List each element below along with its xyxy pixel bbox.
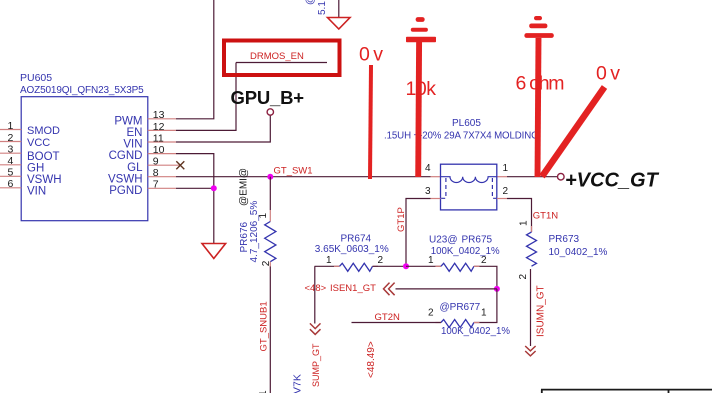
wire junction to PR675 [406, 265, 441, 267]
svg-text:2: 2 [378, 255, 384, 266]
red probe 6ohm bar2 [524, 33, 553, 38]
svg-text:VSWH: VSWH [108, 173, 143, 185]
svg-text:PR675: PR675 [462, 235, 493, 246]
IC U PU605 body [21, 97, 148, 221]
svg-text:PL605: PL605 [452, 118, 481, 129]
svg-text:10_0402_1%: 10_0402_1% [549, 247, 608, 258]
svg-text:9: 9 [153, 156, 159, 168]
DRMOS_EN red callout box [224, 41, 340, 76]
pin 7 PGND stub [148, 187, 176, 189]
wire GT1P junction row [315, 265, 340, 267]
resistor PR676 zigzag [265, 222, 276, 262]
wire SUMP_GT vertical [314, 266, 316, 323]
wire GT_SNUB1 [269, 267, 271, 393]
svg-text:6: 6 [8, 178, 14, 190]
resistor PR673 zigzag [527, 232, 537, 266]
svg-text:1: 1 [326, 255, 332, 266]
svg-text:PGND: PGND [109, 185, 142, 197]
red probe 6ohm dot [534, 16, 542, 20]
svg-text:PR674: PR674 [341, 234, 372, 245]
svg-text:10: 10 [153, 144, 165, 156]
svg-text:0 v: 0 v [596, 63, 620, 85]
resistor PR674 pin2 stub [373, 265, 379, 267]
pin 6 VIN wire stub [0, 187, 21, 189]
svg-text:AOZ5019QI_QFN23_5X3P5: AOZ5019QI_QFN23_5X3P5 [20, 85, 144, 96]
svg-text:VIN: VIN [123, 139, 142, 151]
svg-text:4: 4 [425, 163, 431, 174]
junction GT1P/PR674/PR675 [403, 263, 409, 269]
red probe 6ohm stem [538, 38, 539, 177]
svg-text:10k: 10k [406, 78, 437, 100]
svg-text:CGND: CGND [109, 150, 143, 162]
pin 10 CGND stub [148, 153, 176, 155]
inductor pin 2 wire [507, 199, 532, 233]
svg-text:+VCC_GT: +VCC_GT [565, 170, 660, 192]
red marker 0 v right diagonal stroke [542, 87, 605, 177]
svg-text:2: 2 [518, 274, 529, 280]
svg-text:GT1P: GT1P [396, 207, 407, 232]
svg-text:GT2N: GT2N [375, 312, 400, 323]
svg-text:5.1: 5.1 [317, 1, 328, 15]
wire to top ground [338, 0, 340, 18]
svg-text:11: 11 [153, 132, 164, 144]
no-connect X on pin 9 [176, 161, 184, 169]
ground symbol CGND [202, 244, 226, 259]
pin 11 VIN stub [148, 141, 176, 143]
inductor pin4 stub [431, 176, 441, 178]
svg-text:ISUMN_GT: ISUMN_GT [536, 285, 547, 337]
red marker 0 v left stroke [370, 65, 371, 179]
wire pin12 to DRMOS_EN [176, 63, 236, 131]
red probe 10k dot [416, 17, 425, 22]
svg-text:7: 7 [153, 179, 159, 191]
inductor pin 3 stub [431, 198, 441, 200]
svg-text:6 ohm: 6 ohm [516, 73, 564, 95]
red probe 10k stem [415, 42, 422, 177]
wire GT2N [352, 322, 441, 324]
wire ISEN junction down to PR677 [474, 289, 497, 323]
svg-text:PR673: PR673 [549, 234, 580, 245]
wire PR675 to corner down to ISEN junction [474, 266, 497, 289]
resistor PR675 pin2 stub [474, 265, 480, 267]
pin 5 VSWH wire stub [0, 175, 21, 177]
off-page connector ISUMN_GT chevron down [525, 346, 535, 356]
resistor PR674 zigzag [340, 263, 373, 271]
svg-text:SUMP_GT: SUMP_GT [311, 343, 321, 387]
off-page connector ISEN1_GT chevron [384, 283, 395, 296]
svg-text:V7K: V7K [292, 374, 304, 393]
pin 3 BOOT wire stub [0, 152, 21, 154]
pin 1 SMOD wire stub [0, 129, 21, 131]
junction GT_SW1 / PR676 [267, 174, 273, 180]
power port +VCC_GT circle [558, 173, 565, 180]
red probe 6ohm bar1 [529, 24, 547, 29]
svg-text:U23@: U23@ [429, 235, 458, 246]
svg-text:<48>: <48> [305, 283, 327, 294]
wire pin13 to PWM vertical [176, 0, 214, 119]
svg-text:3: 3 [425, 186, 431, 197]
svg-text:GT_SNUB1: GT_SNUB1 [259, 301, 270, 351]
svg-text:GPU_B+: GPU_B+ [231, 87, 305, 108]
resistor PR676 top wire [269, 177, 271, 210]
svg-text:GH: GH [27, 162, 44, 174]
svg-text:1: 1 [481, 308, 487, 319]
svg-text:@: @ [305, 0, 316, 5]
svg-text:2: 2 [503, 186, 509, 197]
svg-text:VIN: VIN [27, 185, 46, 197]
resistor PR676 pin2 stub [269, 262, 271, 267]
inductor pin 2 stub [497, 198, 507, 200]
wire pin11 to GPU_B+ port [176, 115, 270, 142]
wire ISEN1_GT horizontal [396, 288, 497, 290]
svg-text:1: 1 [519, 220, 530, 226]
svg-text:PWM: PWM [114, 115, 142, 127]
off-page connector SUMP_GT chevron down [310, 323, 321, 334]
junction pin7/CGND [211, 185, 217, 191]
svg-text:DRMOS_EN: DRMOS_EN [250, 51, 304, 62]
svg-text:BOOT: BOOT [27, 151, 60, 163]
inductor pin1 stub [497, 176, 507, 178]
svg-text:3.65K_0603_1%: 3.65K_0603_1% [315, 244, 389, 255]
svg-text:13: 13 [153, 109, 165, 121]
svg-text:4: 4 [8, 155, 14, 167]
svg-text:.15UH +-20% 29A 7X7X4 MOLDING: .15UH +-20% 29A 7X7X4 MOLDING [384, 131, 539, 142]
power port GPU_B+ circle [267, 109, 273, 115]
pin 8 VSWH stub [148, 176, 176, 178]
svg-text:0 v: 0 v [359, 44, 383, 66]
resistor PR677 zigzag [441, 320, 474, 328]
pin 4 GH wire stub [0, 164, 21, 166]
junction ISEN1_GT [494, 286, 500, 292]
svg-text:GT1N: GT1N [533, 211, 558, 222]
resistor PR675 pin1 stub [435, 265, 441, 267]
wire PR674 to junction [373, 265, 407, 267]
wire pin7 PGND to CGND vertical [176, 187, 214, 189]
resistor PR674 pin1 stub [334, 265, 340, 267]
wire GT_SW1 main horizontal [176, 176, 558, 178]
title block border lines [541, 390, 712, 393]
wire pin10 CGND to ground [176, 154, 214, 243]
resistor PR673 pin1 stub [531, 226, 533, 232]
svg-text:GL: GL [127, 162, 143, 174]
resistor PR675 zigzag [441, 263, 474, 271]
svg-text:3: 3 [8, 144, 14, 156]
wire DRMOS_EN net segment [236, 62, 327, 64]
svg-text:PU605: PU605 [20, 72, 52, 84]
svg-text:2: 2 [8, 132, 14, 144]
svg-text:VSWH: VSWH [27, 174, 62, 186]
svg-text:@PR677: @PR677 [440, 302, 481, 313]
svg-text:8: 8 [153, 167, 159, 179]
svg-text:EN: EN [127, 127, 143, 139]
svg-text:2: 2 [428, 308, 434, 319]
svg-text:4.7_1206_5%: 4.7_1206_5% [249, 201, 260, 263]
pin 2 VCC wire stub [0, 141, 21, 143]
svg-text:ISEN1_GT: ISEN1_GT [330, 283, 376, 294]
ground symbol top [328, 18, 351, 30]
inductor PL605 body [441, 164, 497, 210]
pin 9 GL stub [148, 164, 180, 166]
svg-text:100K_0402_1%: 100K_0402_1% [441, 326, 510, 337]
svg-text:GT_SW1: GT_SW1 [274, 166, 313, 177]
red probe 10k bar2 [406, 37, 436, 42]
svg-text:1: 1 [8, 120, 14, 132]
svg-text:VCC: VCC [27, 137, 50, 149]
svg-text:5: 5 [8, 167, 14, 179]
resistor PR677 pin stubs [435, 322, 479, 324]
svg-text:100K_0402_1%: 100K_0402_1% [431, 246, 500, 257]
inductor pin 3 wire [406, 199, 431, 267]
svg-text:1: 1 [503, 163, 509, 174]
resistor PR676 pin1 stub [269, 210, 271, 222]
svg-text:<48.49>: <48.49> [366, 341, 377, 378]
svg-text:12: 12 [153, 121, 165, 133]
wire ISUMN_GT vertical [530, 269, 532, 346]
svg-text:SMOD: SMOD [27, 125, 60, 137]
pin 12 EN stub [148, 129, 176, 131]
pin 13 PWM stub [148, 118, 176, 120]
svg-text:@EMI@: @EMI@ [239, 168, 250, 206]
red probe 10k bar1 [411, 28, 428, 32]
